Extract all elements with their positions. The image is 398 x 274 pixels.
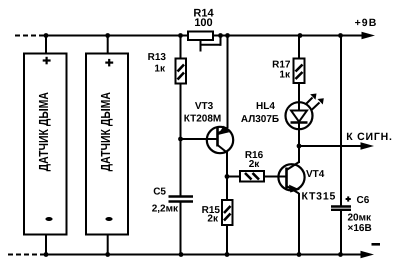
resistor R16 2k bbox=[240, 150, 264, 182]
wire top rail left segment bbox=[44, 35, 189, 37]
wire R16 right lead to VT4 base bbox=[264, 176, 287, 178]
wire R17 top lead bbox=[298, 36, 300, 60]
svg-text:2к: 2к bbox=[207, 214, 219, 225]
svg-text:+9В: +9В bbox=[355, 17, 378, 29]
svg-text:ДАТЧИК ДЫМА: ДАТЧИК ДЫМА bbox=[99, 92, 114, 172]
wire sensor 2 bottom lead bbox=[107, 235, 109, 255]
junction top rail / sensor 2 bbox=[105, 33, 110, 38]
wire C6 top lead bbox=[340, 36, 342, 207]
capacitor C5 2.2mk bbox=[152, 187, 193, 215]
wire VT3 base wire bbox=[181, 138, 218, 140]
wire VT3 collector lead bbox=[226, 152, 228, 178]
svg-text:ДАТЧИК ДЫМА: ДАТЧИК ДЫМА bbox=[37, 92, 52, 172]
junction VT3 base tap bbox=[178, 137, 183, 142]
resistor R14 100 trimmer bbox=[188, 8, 221, 52]
smoke sensor 1 ДАТЧИК ДЫМА bbox=[24, 54, 67, 235]
junction bottom rail / sensor 1 bbox=[44, 252, 49, 257]
wire VT4 collector lead bbox=[298, 146, 300, 163]
wire top rail right segment bbox=[213, 35, 366, 37]
resistor R15 2k bbox=[202, 200, 233, 225]
svg-text:2,2мк: 2,2мк bbox=[152, 203, 179, 214]
wire R15 bottom lead bbox=[226, 225, 228, 255]
node К СИГН output arrow bbox=[346, 131, 393, 150]
wire sensor 2 top lead bbox=[107, 36, 109, 55]
svg-text:1к: 1к bbox=[279, 70, 291, 81]
resistor R17 1k bbox=[272, 59, 304, 84]
junction rail / VT3 emitter column bbox=[225, 33, 230, 38]
wire sensor 1 top lead bbox=[45, 36, 47, 55]
svg-text:КТ315: КТ315 bbox=[302, 191, 337, 203]
junction R14 wiper / rail bbox=[218, 33, 223, 38]
wire R15 top lead bbox=[226, 177, 228, 201]
svg-text:2к: 2к bbox=[249, 159, 261, 170]
svg-text:КТ208М: КТ208М bbox=[184, 114, 221, 125]
node minus rail arrow bbox=[361, 243, 381, 258]
svg-text:HL4: HL4 bbox=[256, 101, 275, 112]
junction bottom rail / R15 column bbox=[225, 252, 230, 257]
svg-text:20мк: 20мк bbox=[348, 213, 373, 224]
svg-text:R13: R13 bbox=[148, 52, 167, 63]
wire output line К СИГН bbox=[299, 145, 366, 147]
svg-text:АЛ307Б: АЛ307Б bbox=[241, 114, 279, 125]
LED HL4 АЛ307Б bbox=[241, 94, 324, 130]
svg-text:100: 100 bbox=[194, 17, 212, 29]
svg-text:С6: С6 bbox=[357, 195, 370, 206]
transistor VT4 КТ315 (NPN) bbox=[278, 162, 336, 203]
svg-text:VT4: VT4 bbox=[306, 169, 325, 180]
svg-text:×16В: ×16В bbox=[348, 223, 372, 234]
wire bottom rail dashed lead-in bbox=[8, 254, 45, 256]
junction output node bbox=[297, 144, 302, 149]
junction rail / C6 column bbox=[338, 33, 343, 38]
junction bottom rail / VT4 emitter bbox=[297, 252, 302, 257]
node +9V supply arrow bbox=[355, 17, 378, 39]
wire C6 bottom lead bbox=[340, 210, 342, 255]
junction VT3 collector node bbox=[225, 174, 230, 179]
wire R16 left lead bbox=[227, 176, 240, 178]
wire R17 to LED bbox=[298, 83, 300, 103]
junction top rail / sensor 1 bbox=[44, 33, 49, 38]
wire VT3 emitter column bbox=[227, 36, 229, 129]
smoke sensor 2 ДАТЧИК ДЫМА bbox=[86, 54, 128, 235]
wire R13 top lead bbox=[180, 36, 182, 60]
svg-text:К СИГН.: К СИГН. bbox=[346, 131, 393, 143]
resistor R13 1k bbox=[148, 52, 186, 84]
capacitor C6 20mk 16V bbox=[331, 195, 372, 234]
svg-text:1к: 1к bbox=[154, 64, 166, 75]
wire LED cathode to collector node bbox=[298, 123, 300, 147]
junction bottom rail / C5 column bbox=[179, 252, 184, 257]
transistor VT3 КТ208М (PNP) bbox=[184, 101, 233, 153]
wire VT4 emitter lead bbox=[298, 193, 300, 255]
wire sensor 1 bottom lead bbox=[45, 235, 47, 255]
junction top rail / R13 column bbox=[178, 33, 183, 38]
wire C5 bottom lead bbox=[180, 202, 182, 255]
wire bottom rail bbox=[45, 254, 366, 256]
wire R13 bottom to C5 bbox=[180, 84, 182, 197]
wire top rail dashed lead-in bbox=[15, 35, 44, 37]
svg-text:VT3: VT3 bbox=[195, 101, 214, 112]
junction bottom rail / sensor 2 bbox=[105, 252, 110, 257]
junction bottom rail / C6 column bbox=[338, 252, 343, 257]
junction rail / R17 column bbox=[298, 33, 303, 38]
svg-text:С5: С5 bbox=[153, 187, 166, 198]
